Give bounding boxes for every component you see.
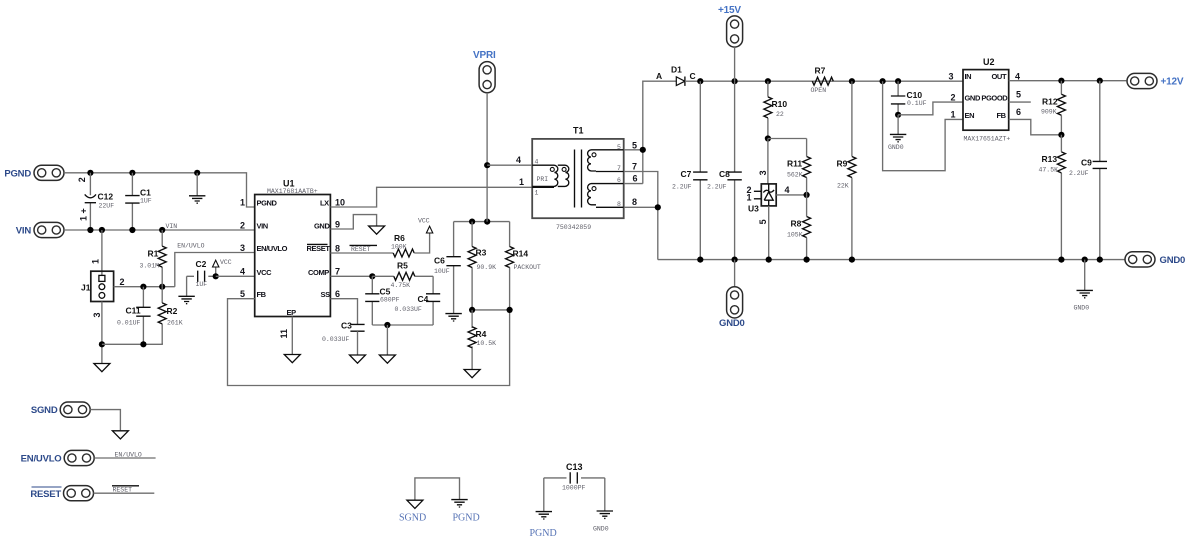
svg-text:+15V: +15V [718,5,741,16]
transformer T1 primary winding [532,165,569,187]
wire RESET pin8 to R6 [330,252,393,254]
node junction GND0 earth drop [1082,257,1088,263]
svg-text:0.033UF: 0.033UF [322,336,349,343]
svg-text:VCC: VCC [220,259,232,266]
ground triangle SGND [112,431,128,439]
svg-text:R8: R8 [791,219,802,229]
connector VIN (2-pin oval) [34,222,64,237]
power VCC arrow at R6 [426,226,432,233]
svg-text:4: 4 [516,155,521,165]
ground triangle R4 [464,370,480,378]
svg-text:6: 6 [617,177,621,184]
connector SGND [60,402,90,417]
net label RESET (with overline) [350,245,378,253]
node junction R10 bottom [765,135,771,141]
regulator U2 MAX17651AZT+ box [963,70,1009,131]
ground earth below C2 [178,296,194,303]
svg-text:MAX17681AATB+: MAX17681AATB+ [267,188,318,195]
svg-text:R6: R6 [394,233,405,243]
node junction C7 top [697,78,703,84]
resistor R7 OPEN (horizontal) [812,77,833,85]
resistor R2 261K [158,287,166,345]
svg-text:750342859: 750342859 [556,224,591,231]
svg-text:R2: R2 [167,306,178,316]
node junction EN loop top [880,78,886,84]
svg-text:R4: R4 [476,329,487,339]
node junction C10 top [895,78,901,84]
svg-text:SGND: SGND [31,405,58,416]
svg-text:COMP: COMP [308,268,329,277]
svg-text:EN: EN [965,111,975,120]
svg-text:EP: EP [287,308,297,317]
wire R3-R14 bottom junction row [472,309,510,311]
svg-text:2.2UF: 2.2UF [707,183,727,190]
ground SGND triangle below J1 [94,364,110,372]
node junction R9 bottom [849,257,855,263]
node junction C9 top [1097,78,1103,84]
svg-text:+12V: +12V [1161,77,1184,88]
svg-text:562K: 562K [787,171,803,178]
svg-text:6: 6 [335,289,340,299]
node junction C9 bottom [1097,257,1103,263]
svg-text:100K: 100K [391,244,407,251]
svg-text:RESET: RESET [307,244,331,253]
ground earth GND0 right [1077,290,1093,297]
svg-text:U3: U3 [748,204,759,214]
capacitor C3 0.033UF [350,324,364,354]
svg-text:R9: R9 [837,159,848,169]
svg-text:J1: J1 [81,282,91,292]
svg-text:C4: C4 [418,294,429,304]
connector +12V [1127,73,1157,88]
resistor R14 PACKOUT [506,222,514,310]
ground earth below C6 [445,314,461,321]
node junction C11 top [140,284,146,290]
svg-text:PRI: PRI [537,176,549,183]
wire C5-C4 bottom [372,324,433,326]
svg-text:1: 1 [91,259,101,264]
wire T1 pin7 to return riser [624,172,658,260]
svg-text:22K: 22K [837,183,849,190]
svg-text:2: 2 [240,221,245,231]
svg-text:90.9K: 90.9K [477,264,497,271]
svg-text:C8: C8 [719,169,730,179]
ground triangle C3 [350,355,366,363]
svg-text:EN/UVLO: EN/UVLO [177,243,204,250]
svg-text:FB: FB [997,111,1007,120]
svg-text:GND0: GND0 [719,318,745,329]
node junction R14 FB [507,307,513,313]
svg-text:SS: SS [321,290,331,299]
svg-text:C: C [690,71,696,81]
wire GND0 connector drop [734,260,736,287]
node junction R13 bottom [1058,257,1064,263]
transformer T1 secondary winding bottom [588,184,624,208]
svg-text:0.033UF: 0.033UF [395,306,422,313]
capacitor C10 0.1UF [891,81,905,115]
svg-text:PGOOD: PGOOD [981,94,1008,103]
svg-text:VIN: VIN [166,223,178,230]
node junction R10 top [765,78,771,84]
power VCC arrow at C2 [213,260,219,276]
svg-text:3: 3 [240,243,245,253]
svg-text:R1: R1 [148,249,159,259]
svg-text:SGND: SGND [399,512,426,523]
svg-text:3: 3 [949,71,954,81]
wire J1 vertical from VIN rail [101,230,103,276]
node junction VPRI line [484,219,490,225]
svg-text:VPRI: VPRI [473,50,496,61]
svg-text:VCC: VCC [257,268,273,277]
diode D1 [676,77,700,86]
node junction R3 top [469,219,475,225]
label RESET connector (with overline) [30,487,61,500]
svg-text:261K: 261K [167,319,183,326]
node junction U3 bottom [766,257,772,263]
capacitor C8 2.2UF [727,81,741,259]
transformer T1 core [575,150,582,208]
svg-text:22: 22 [776,111,784,118]
svg-text:4: 4 [785,185,790,195]
svg-text:C3: C3 [341,321,352,331]
resistor R9 22K [848,81,856,259]
wire PGND rail from connector to U1 pin1 with step [64,173,255,207]
wire secondary riser 5-6 up to D1 [643,81,676,183]
svg-text:EN/UVLO: EN/UVLO [115,452,142,459]
connector EN/UVLO [64,450,94,465]
svg-text:909K: 909K [1041,109,1057,116]
wire C6/R3/VPRI/R14 top row [454,221,510,223]
svg-text:2.2UF: 2.2UF [1069,170,1089,177]
ground earth C10 [890,134,906,141]
svg-text:10.5K: 10.5K [477,340,497,347]
transformer T1 box [532,139,624,218]
wire C10 to U2 GND pin2 [898,102,963,115]
ground triangle at GND pin9 [369,226,385,234]
svg-text:C2: C2 [196,259,207,269]
wire +15V connector down [734,47,736,81]
capacitor C13 1000PF (horizontal) [544,472,605,511]
svg-text:FB: FB [257,290,267,299]
wire EP pin 11 [291,317,293,355]
pin name RESET (with overline) [307,244,331,253]
capacitor C2 1UF (horizontal) [187,271,216,296]
node junction C8 bottom [732,257,738,263]
wire J1 pin2 row to EN/UVLO corner [114,286,175,288]
svg-text:R3: R3 [476,248,487,258]
wire VIN rail to U1 pin2 [64,229,255,231]
wire GND0 bottom rail [658,259,1125,261]
ground triangle SGND tie [407,500,423,508]
svg-text:D1: D1 [671,65,682,75]
svg-text:R7: R7 [815,65,826,75]
connector VPRI [479,62,495,93]
node junction R2 top [159,284,165,290]
svg-text:5: 5 [240,289,245,299]
resistor R11 562K [803,139,811,195]
wire RESET stub [94,492,155,494]
svg-text:R13: R13 [1042,154,1058,164]
svg-text:RESET: RESET [351,246,371,253]
wire bottom row J1/C11/R2 [102,343,162,344]
svg-text:10UF: 10UF [434,268,450,275]
node junction VPRI T1 pin4 [484,162,490,168]
node junction C12 top [87,170,93,176]
wire down from C5C4 junction [386,325,388,355]
svg-text:C7: C7 [681,169,692,179]
svg-text:11: 11 [279,329,289,339]
node junction J1 gnd wire [99,341,105,347]
svg-text:MAX17651AZT+: MAX17651AZT+ [964,136,1011,143]
op-amp U1 MAX17681AATB+ box [255,195,331,317]
wire U3 pin4 to R11/R8 [776,194,806,196]
node junction R12 top [1058,78,1064,84]
wire EN/UVLO stub [94,457,155,459]
capacitor C5 680PF [365,276,379,325]
svg-text:U1: U1 [283,179,295,189]
wire +15V top rail [700,80,963,82]
svg-text:PGND: PGND [453,512,480,523]
svg-text:1: 1 [747,193,752,203]
svg-text:5: 5 [758,219,768,224]
wire SS pin6 to C3 [330,299,357,325]
connector RESET [64,486,94,501]
svg-text:IN: IN [965,72,972,81]
node junction C12 bottom [87,227,93,233]
svg-text:PGND: PGND [530,528,557,539]
svg-text:680PF: 680PF [380,297,400,304]
svg-text:10: 10 [335,198,345,208]
capacitor C6 10UF [446,222,460,313]
svg-text:GND0: GND0 [1074,305,1090,312]
node junction T1 pin8 [655,204,661,210]
ground earth GND0 at C13 [597,511,613,518]
node junction C10 bottom [895,112,901,118]
node junction J1 line [99,227,105,233]
svg-text:1000PF: 1000PF [562,484,586,491]
wire FB pin5 feedback loop [228,299,510,386]
svg-text:8: 8 [632,197,637,207]
node junction R12 R13 [1058,132,1064,138]
svg-text:0.1UF: 0.1UF [907,100,927,107]
capacitor C4 0.033UF [426,276,440,325]
wire VCC dot to U1 pin4 [216,275,255,277]
node junction R9 top [849,78,855,84]
svg-text:PGND: PGND [4,168,31,179]
svg-text:VIN: VIN [16,226,32,237]
connector GND0 bottom [727,287,743,318]
svg-text:C6: C6 [434,255,445,265]
svg-text:2: 2 [951,92,956,102]
svg-text:GND0: GND0 [1160,255,1186,266]
ground PGND earth near rail [189,196,205,203]
svg-text:8: 8 [335,244,340,254]
svg-text:R14: R14 [513,249,529,259]
node junction R11 R8 [804,192,810,198]
wire T1 pin4 from VPRI [487,164,532,166]
wire GND0 earth drop right [1084,260,1086,290]
ground earth PGND tie [451,500,467,507]
resistor R3 90.9K [468,222,476,310]
node junction earth gnd tap [194,170,200,176]
node junction C7 bottom [697,257,703,263]
svg-text:GND0: GND0 [888,144,904,151]
pin stub PGOOD pin5 [1009,101,1031,103]
resistor R4 10.5K [468,310,476,369]
wire EN loop to U2 pin1 [883,81,963,171]
svg-text:R12: R12 [1042,96,1058,106]
svg-text:OUT: OUT [992,72,1007,81]
ground triangle C5C4 [379,355,395,363]
connector +15V [727,16,743,47]
svg-text:R11: R11 [787,159,802,169]
svg-text:GND0: GND0 [593,525,609,532]
resistor R10 22 [764,81,772,138]
svg-text:VCC: VCC [418,217,430,224]
svg-text:C10: C10 [907,90,923,100]
svg-text:47.5K: 47.5K [1039,167,1059,174]
wire COMP pin7 [330,275,372,277]
resistor R1 3.01M [158,230,166,287]
resistor R13 47.5K [1057,135,1065,260]
shunt regulator U3 [761,184,776,206]
svg-text:R5: R5 [397,261,408,271]
svg-text:9: 9 [335,220,340,230]
svg-text:1UF: 1UF [196,281,208,288]
wire T1 pin8 [624,206,658,208]
svg-text:C11: C11 [126,305,141,315]
ground triangle EP [284,355,300,363]
svg-text:2.2UF: 2.2UF [672,183,692,190]
svg-text:C13: C13 [566,462,583,472]
node junction C5C4 gnd [384,322,390,328]
svg-text:1: 1 [535,189,539,196]
svg-text:4: 4 [240,267,245,277]
wire SGND-PGND tie bridge [415,478,460,500]
svg-text:C9: C9 [1081,157,1092,167]
svg-text:7: 7 [335,267,340,277]
wire T1 pin5 to rectifier riser [624,149,643,151]
pin stub 1 of U3 [754,198,761,200]
wire C10 earth drop [897,115,899,134]
node junction R3R4 [469,307,475,313]
node junction C11 bottom [140,341,146,347]
svg-text:0.01UF: 0.01UF [117,319,141,326]
connector GND0 right [1125,252,1155,267]
svg-text:EN/UVLO: EN/UVLO [21,454,62,465]
net label RESET at connector (with overline) [112,486,139,494]
node junction COMP [369,273,375,279]
svg-text:105K: 105K [787,231,803,238]
svg-text:1: 1 [240,198,245,208]
header J1 3-pin [91,271,114,301]
wire LX pin10 to T1 pin1 [330,187,532,207]
svg-text:RESET: RESET [30,489,61,500]
wire U2 OUT rail to +12V [1009,80,1127,82]
svg-text:1: 1 [951,110,956,120]
wire R10 junction down to U3 pin3 [767,139,769,184]
svg-text:6: 6 [1016,107,1021,117]
svg-text:U2: U2 [983,57,995,67]
capacitor C7 2.2UF [693,81,707,259]
svg-text:1UF: 1UF [140,198,152,205]
resistor R8 105K [803,195,811,260]
wire T1 pin6 [624,183,643,185]
wire earth drop [196,173,198,196]
resistor R12 909K [1057,81,1065,135]
capacitor C11 0.01UF [136,287,150,345]
svg-text:4: 4 [1015,71,1020,81]
wire R10 to R11 top [768,138,807,140]
svg-text:R10: R10 [772,99,788,109]
connector PGND (J-PGND 2-pin oval) [34,165,64,180]
svg-text:3: 3 [92,312,102,317]
svg-text:1 +: 1 + [79,208,89,221]
svg-text:5: 5 [617,144,621,151]
pin stub 2 of U3 [754,190,761,192]
wire J1 pin3 down to ground [101,302,103,364]
capacitor C1 (1UF) [125,173,139,230]
svg-text:PACKOUT: PACKOUT [514,264,541,271]
svg-text:VIN: VIN [257,222,268,231]
svg-text:7: 7 [632,162,637,172]
svg-text:OPEN: OPEN [811,87,827,94]
node junction +15V drop [732,78,738,84]
svg-text:3: 3 [758,170,768,175]
transformer T1 secondary winding top [588,150,624,172]
svg-text:2: 2 [120,277,125,287]
svg-text:PGND: PGND [257,198,278,207]
svg-text:4: 4 [535,158,539,165]
svg-text:1: 1 [519,177,524,187]
resistor R5 4.75K (horizontal) [372,272,433,280]
node junction R8 bottom [804,257,810,263]
svg-text:GND: GND [965,94,981,103]
svg-text:5: 5 [1016,89,1021,99]
wire VPRI down [486,93,488,222]
svg-text:T1: T1 [573,126,584,136]
node junction VCC dot [213,273,219,279]
svg-text:7: 7 [617,165,621,172]
svg-text:C12: C12 [98,192,114,202]
node junction C1 bottom [129,227,135,233]
wire GND pin9 jog to ground [330,215,376,229]
ground earth PGND at C13 [536,512,552,519]
svg-text:5: 5 [632,140,637,150]
svg-text:RESET: RESET [113,487,133,494]
capacitor C9 2.2UF [1093,81,1107,260]
node junction C1 top [129,170,135,176]
svg-text:2: 2 [77,177,87,182]
svg-text:A: A [656,71,662,81]
svg-text:3.01M: 3.01M [140,263,160,270]
svg-text:8: 8 [617,201,621,208]
node junction T1 pin5 [640,147,646,153]
svg-text:C1: C1 [140,187,151,197]
svg-text:EN/UVLO: EN/UVLO [257,244,288,253]
wire U3 pin5 down to rail [768,206,770,260]
svg-text:6: 6 [633,174,638,184]
capacitor C12 (polarized 22UF) [85,173,96,230]
svg-text:22UF: 22UF [99,202,115,209]
svg-text:4.75K: 4.75K [391,282,411,289]
svg-text:GND: GND [314,222,330,231]
svg-text:C5: C5 [380,287,391,297]
node junction R1 top [159,227,165,233]
resistor R6 100K (horizontal) [393,249,414,257]
wire SGND to ground [90,410,120,431]
wire U2 FB pin6 to divider [1009,119,1062,134]
